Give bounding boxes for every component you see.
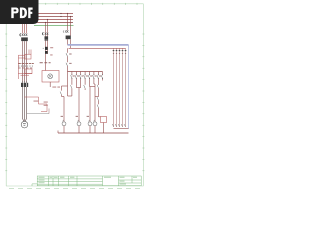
junction dot A — [60, 13, 61, 14]
motor feed wires — [23, 87, 27, 121]
contact aux — [84, 85, 85, 88]
wiring box K2 — [25, 69, 32, 74]
wire red left 1 — [18, 54, 25, 56]
contact leg2 — [71, 85, 72, 88]
wire red box top a — [28, 50, 30, 55]
contactor block KM3 — [66, 36, 71, 40]
coil KM1 slash — [62, 120, 64, 122]
relay symbol inside — [48, 74, 53, 79]
wire below box — [49, 82, 51, 87]
cluster fuse marks — [113, 50, 127, 51]
junction dot C — [67, 13, 68, 14]
page border frame — [6, 4, 144, 186]
label s2 — [69, 62, 71, 65]
wire red vertical left — [17, 55, 19, 79]
contact dots row — [71, 74, 103, 78]
phase wires mid — [23, 41, 27, 83]
junction dot D — [70, 16, 71, 17]
junction bar — [68, 71, 103, 73]
junction dot B — [45, 22, 46, 23]
rail left stub — [57, 131, 59, 134]
PDF badge text — [11, 8, 32, 19]
coil KM3 slash — [88, 120, 90, 122]
contactor KM1 block — [21, 37, 28, 41]
contactor KM2 block — [45, 36, 49, 39]
cluster terminal marks — [112, 124, 125, 127]
bus L3 — [34, 19, 73, 21]
breaker QF3 — [63, 30, 68, 32]
phase wires to QF1 — [23, 24, 27, 34]
coil KM2 slash — [77, 120, 79, 122]
control feed vertical b — [70, 17, 72, 36]
contact coil1 — [60, 92, 61, 95]
right cluster wires — [114, 48, 126, 127]
overload relay FR1 — [21, 83, 28, 87]
wire into rails — [67, 39, 69, 45]
contact n1 — [97, 85, 98, 88]
motor M1 — [21, 121, 28, 128]
breaker QF1 — [20, 34, 28, 37]
label row terminals — [18, 62, 34, 65]
contact m1 — [97, 97, 98, 100]
labels above coils — [61, 115, 89, 118]
branch coil4 and timer — [94, 81, 104, 134]
tiny labels row — [73, 75, 102, 78]
timer box TB — [101, 117, 107, 123]
label row 2 — [18, 67, 32, 70]
branch to coil2 pair join — [76, 81, 80, 122]
wire red left 2 — [18, 57, 25, 59]
contactor KM2 block row2 — [45, 39, 49, 40]
terminal ticks — [19, 65, 32, 67]
control rail red — [69, 47, 126, 49]
breaker QF2 — [42, 32, 48, 35]
label f2a — [50, 46, 53, 49]
fuse F2a — [45, 47, 48, 50]
wire red box top b — [30, 50, 32, 55]
wiring box K1 — [25, 54, 31, 59]
contact S2 — [66, 63, 68, 66]
control feed vertical a — [67, 14, 69, 31]
wire red bottom 2 — [21, 74, 30, 76]
wire gray stub — [27, 113, 49, 115]
wire gray vert stub — [48, 109, 50, 114]
bus L1 — [34, 13, 73, 15]
label 44.x — [34, 100, 39, 103]
PDF badge — [0, 0, 39, 24]
title block text marks — [39, 177, 138, 185]
coil KM2 — [77, 122, 81, 126]
label f2b — [50, 54, 52, 57]
bus N — [34, 22, 73, 24]
bus PE green — [34, 25, 74, 27]
bottom fold dashes — [9, 187, 140, 189]
wire red branch from phase — [25, 97, 48, 112]
feeder 2 wire b — [47, 20, 49, 55]
control rail blue — [68, 44, 129, 46]
contact drops row — [72, 72, 103, 81]
border tick marks — [5, 3, 144, 171]
coil wires to rail — [64, 126, 95, 133]
contact slashes row — [71, 75, 103, 78]
branch to coil1 left leg — [62, 72, 72, 122]
motor label — [23, 122, 26, 125]
cluster sub rail — [114, 128, 129, 130]
wire red bottom 1 — [18, 73, 32, 75]
feeder 2 wire a — [45, 23, 47, 71]
title block — [32, 176, 141, 186]
label s1 — [69, 53, 71, 56]
bottom rail — [58, 132, 129, 134]
label row — [40, 61, 43, 64]
control branch main — [67, 48, 69, 71]
contact m2 — [97, 105, 98, 108]
coil KM1 — [62, 122, 66, 126]
coil KM4 slash — [93, 120, 95, 122]
coil KM3 — [88, 122, 92, 126]
label below box — [52, 86, 56, 89]
blue rail drop — [128, 45, 130, 129]
branch coil3 vertical — [85, 81, 95, 122]
contact S1 — [66, 53, 68, 56]
relay box T1 — [42, 71, 59, 83]
fuse F2b — [45, 51, 48, 54]
tick mark — [43, 47, 44, 49]
overload ticks — [23, 81, 27, 83]
coil KM4 — [93, 122, 97, 126]
bus L2 — [34, 16, 73, 18]
